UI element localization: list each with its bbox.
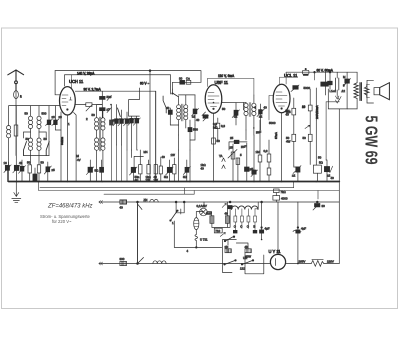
- svg-text:µµF: µµF: [256, 130, 261, 134]
- svg-text:UCH 11: UCH 11: [69, 79, 84, 84]
- wire grid top: [55, 71, 60, 95]
- trimmer C2: [52, 106, 61, 130]
- wire rail2: [65, 75, 171, 94]
- core T2: [249, 103, 251, 117]
- arrow mark: [305, 125, 310, 128]
- svg-text:40: 40: [162, 155, 166, 159]
- wire tube cathode down: [66, 115, 68, 182]
- svg-text:50: 50: [41, 161, 45, 165]
- resistor R13 striped: [120, 200, 127, 210]
- trimmer C1: [46, 106, 53, 156]
- svg-text:4µF: 4µF: [301, 227, 306, 231]
- wire left rail: [9, 106, 16, 182]
- resistor R5: [216, 118, 226, 140]
- svg-text:NSF: NSF: [206, 212, 212, 216]
- trimmer C31: [344, 72, 351, 89]
- coil L5: [336, 72, 339, 95]
- svg-text:UBF 11: UBF 11: [215, 80, 229, 85]
- capacitor C3: [28, 165, 31, 182]
- switch S9: [138, 258, 144, 264]
- output transformer primary: [354, 72, 358, 109]
- capacitor C29: [304, 86, 317, 120]
- svg-text:500: 500: [107, 95, 112, 99]
- svg-text:0,3: 0,3: [264, 149, 268, 153]
- svg-text:43: 43: [19, 161, 23, 165]
- svg-text:4: 4: [187, 249, 189, 253]
- tube UBF11 U2: [205, 85, 222, 113]
- svg-text:ZN: ZN: [144, 198, 148, 202]
- dial lamp La1: [197, 204, 208, 216]
- coil L0: [7, 126, 11, 138]
- capacitor C17: [186, 77, 191, 85]
- fuse Si: [14, 91, 19, 99]
- capacitor C10: [100, 99, 112, 118]
- volume pot P1: [228, 144, 237, 182]
- IF transformer T2 secondary: [252, 95, 256, 128]
- svg-text:±5: ±5: [52, 168, 56, 172]
- loudspeaker LS: [367, 80, 390, 103]
- svg-text:0,1A/6V: 0,1A/6V: [197, 204, 207, 208]
- trimmer C27: [293, 165, 301, 181]
- svg-text:50: 50: [27, 161, 31, 165]
- resistor R14 striped: [204, 202, 214, 227]
- capacitor C22: [245, 143, 254, 182]
- switch S4: [172, 89, 195, 97]
- trimmer C7: [44, 162, 51, 182]
- wire input top: [16, 105, 60, 107]
- svg-text:50: 50: [26, 137, 30, 141]
- wave symbol: [293, 230, 301, 233]
- wire plate right: [75, 91, 155, 181]
- switch arm S8: [240, 256, 254, 271]
- tuning gang frame: [129, 88, 140, 118]
- coil L1: [24, 106, 33, 138]
- trimmer C18: [192, 95, 199, 125]
- svg-text:140 V, 28µA: 140 V, 28µA: [77, 71, 95, 75]
- resistor R2: [110, 105, 114, 182]
- capacitor C19: [188, 120, 198, 140]
- svg-text:4µF: 4µF: [265, 227, 270, 231]
- resistor group G1: [134, 150, 150, 182]
- coil L2: [28, 132, 32, 156]
- resistor R7: [236, 158, 240, 182]
- wire lamp bottom: [212, 208, 230, 227]
- svg-text:5: 5: [343, 84, 345, 88]
- svg-text:±2: ±2: [234, 115, 238, 119]
- switch staple S6b: [175, 201, 185, 213]
- svg-text:0,3: 0,3: [221, 124, 225, 128]
- resistor R21: [273, 193, 288, 202]
- scale lamp resistor: [194, 212, 208, 248]
- wire anode vert: [71, 75, 73, 88]
- svg-text:220V: 220V: [327, 260, 334, 264]
- svg-text:40: 40: [264, 106, 268, 110]
- svg-text:.12: .12: [341, 89, 345, 93]
- svg-text:TA: TA: [219, 154, 223, 158]
- resistor R15 striped: [225, 202, 230, 227]
- tube UCL11 U3: [273, 84, 290, 112]
- IF transformer T2 primary: [244, 102, 248, 130]
- switch S2: [46, 142, 49, 156]
- svg-text:±3: ±3: [59, 115, 63, 119]
- resistor R4: [166, 106, 172, 125]
- resistor R11: [302, 89, 312, 165]
- svg-text:5Ω: 5Ω: [319, 161, 324, 165]
- svg-text:30: 30: [179, 77, 183, 81]
- svg-text:265V: 265V: [299, 260, 306, 264]
- svg-text:40: 40: [196, 118, 200, 122]
- svg-text:5 GW 69: 5 GW 69: [362, 116, 382, 165]
- wire link: [24, 156, 50, 165]
- svg-text:25: 25: [230, 136, 234, 140]
- trimmer arrow: [220, 232, 225, 236]
- svg-text:U 711: U 711: [200, 237, 208, 241]
- svg-text:±2: ±2: [259, 115, 263, 119]
- resistor R10: [286, 98, 296, 165]
- wire T2 down: [246, 128, 254, 140]
- trimmer C11: [113, 105, 120, 145]
- trimmer C13: [128, 118, 135, 150]
- capacitor C26 barrel: [303, 68, 309, 75]
- svg-text:40: 40: [331, 176, 335, 180]
- svg-text:U Y 11: U Y 11: [269, 249, 282, 254]
- svg-text:5000: 5000: [304, 86, 311, 90]
- svg-text:UCL 11: UCL 11: [284, 73, 298, 78]
- bus C: [104, 193, 194, 195]
- svg-text:110 V, 6mA: 110 V, 6mA: [218, 74, 235, 78]
- wire output bottom: [328, 89, 357, 109]
- svg-text:50: 50: [113, 119, 117, 123]
- wire osc bottoms: [170, 125, 195, 150]
- resistor R12 boxed: [313, 120, 321, 181]
- junction dots bus: [16, 102, 317, 265]
- svg-text:1W: 1W: [146, 178, 151, 182]
- choke bumps lower: [153, 261, 166, 264]
- capacitor C25: [251, 135, 258, 182]
- svg-text:7kΩ: 7kΩ: [281, 190, 287, 194]
- wire long vertical V1: [149, 71, 151, 182]
- svg-text:5: 5: [240, 153, 242, 157]
- svg-text:Cu: Cu: [186, 77, 190, 81]
- svg-text:4N: 4N: [245, 245, 249, 249]
- svg-text:300: 300: [120, 257, 125, 261]
- svg-text:710: 710: [215, 229, 220, 233]
- svg-text:4000: 4000: [281, 197, 288, 201]
- trimmer CG1: [130, 167, 138, 182]
- wire UY anode up: [277, 202, 279, 250]
- wire UBF cathode: [213, 113, 215, 181]
- mains line upper: [99, 201, 339, 203]
- capacitor C30: [328, 72, 333, 89]
- svg-text:10: 10: [302, 105, 306, 109]
- resistor 710 box: [214, 228, 222, 233]
- svg-text:für 220 V~: für 220 V~: [52, 219, 72, 224]
- trimmer C12: [118, 110, 125, 145]
- trimmer C5: [4, 162, 11, 182]
- tube UY11 U4: [269, 249, 286, 270]
- switch S3: [118, 108, 121, 117]
- svg-text:500: 500: [42, 112, 47, 116]
- wire switch internals: [228, 240, 264, 274]
- svg-text:50: 50: [217, 139, 221, 143]
- svg-text:121: 121: [240, 267, 245, 271]
- resistor group G3: [173, 158, 176, 182]
- svg-text:200V/20mA: 200V/20mA: [315, 105, 319, 119]
- trimmer C26b: [291, 85, 299, 92]
- wire UCL anode loop: [285, 72, 287, 84]
- resistor M6: [76, 103, 103, 111]
- capacitor C28: [324, 102, 339, 182]
- trimmer C15: [183, 160, 190, 182]
- wire tube left pin: [60, 112, 62, 182]
- coil L3: [37, 106, 46, 138]
- svg-text:50: 50: [44, 137, 48, 141]
- wire: [97, 104, 103, 106]
- choke bumps upper: [150, 199, 158, 202]
- resistor R3: [179, 77, 185, 85]
- svg-text:40: 40: [166, 106, 170, 110]
- core T1: [99, 117, 100, 151]
- svg-text:ZF=468/473 kHz: ZF=468/473 kHz: [47, 204, 93, 210]
- wire UCL cathode: [281, 113, 283, 182]
- svg-text:5Ω: 5Ω: [164, 175, 169, 179]
- capacitor C36: [313, 201, 325, 210]
- trimmer C35: [86, 160, 99, 182]
- resistor R20: [274, 189, 287, 194]
- capacitor C8 electrolytic: [33, 168, 37, 181]
- wire misc: [132, 150, 138, 158]
- resistor R1 boxed: [14, 106, 18, 156]
- switch S1: [24, 142, 27, 156]
- osc coil Lb: [184, 95, 188, 128]
- capacitor C32: [222, 201, 232, 209]
- wire osc top: [172, 82, 201, 89]
- pickup arrows: [219, 154, 225, 169]
- resistor R18: [120, 257, 127, 266]
- IF1 feed capacitor C9: [100, 91, 112, 100]
- IF transformer T1 primary: [95, 105, 99, 182]
- svg-text:16: 16: [4, 161, 8, 165]
- svg-text:2: 2: [86, 117, 88, 121]
- mains line lower: [99, 263, 339, 265]
- arrow pair right: [338, 97, 342, 100]
- svg-text:1W: 1W: [171, 153, 176, 157]
- osc coil La: [177, 96, 181, 135]
- svg-text:1M: 1M: [256, 150, 261, 154]
- arrows down: [336, 96, 339, 103]
- svg-text:500: 500: [193, 128, 198, 132]
- svg-text:2N: 2N: [225, 245, 229, 249]
- resistor R8: [258, 120, 262, 182]
- output transformer core: [360, 83, 361, 101]
- capacitor C33 electrolytic: [260, 201, 270, 239]
- ground: [12, 182, 21, 203]
- svg-text:M4: M4: [144, 150, 148, 154]
- coil L4: [37, 132, 41, 156]
- svg-text:±7: ±7: [107, 108, 111, 112]
- svg-text:49: 49: [225, 212, 229, 216]
- misc small labels: [4, 75, 347, 253]
- wire 60V arrow: [140, 82, 149, 86]
- svg-text:40: 40: [120, 206, 124, 210]
- svg-text:L1+2: L1+2: [330, 89, 337, 93]
- wire grid left: [269, 96, 273, 121]
- svg-text:M: M: [343, 75, 346, 79]
- svg-text:1: 1: [172, 221, 174, 225]
- trimmer C24: [257, 104, 264, 130]
- capacitor C34 electrolytic: [296, 202, 306, 264]
- wire heater return: [174, 221, 221, 248]
- wire grid line: [222, 102, 246, 110]
- svg-text:µµF: µµF: [241, 145, 246, 149]
- heater choke bumps: [232, 206, 258, 234]
- svg-text:4W: 4W: [286, 140, 291, 144]
- wire tube right pin: [74, 113, 77, 182]
- svg-text:60 V, 60mA: 60 V, 60mA: [317, 68, 334, 72]
- capacitor C4: [37, 165, 40, 182]
- svg-text:30: 30: [322, 204, 326, 208]
- svg-text:±2: ±2: [292, 174, 296, 178]
- resistor R17 striped: [245, 245, 252, 259]
- wire UBF anode top: [208, 78, 254, 95]
- vertical long left mid: [117, 145, 128, 182]
- switch arm S6: [170, 209, 181, 221]
- trimmer C6b: [19, 160, 26, 182]
- svg-text:90 V, 2,7mA: 90 V, 2,7mA: [84, 88, 102, 92]
- svg-text:5000: 5000: [269, 121, 276, 125]
- tube UCH11 U1: [60, 87, 76, 115]
- wire jogs: [185, 182, 319, 200]
- capacitor C26c blob: [321, 72, 329, 95]
- wire right of choke: [255, 202, 258, 209]
- switch S5: [163, 96, 166, 113]
- trimmer CG3: [166, 160, 174, 182]
- bus B: [40, 187, 294, 189]
- trimmer C14: [133, 118, 140, 150]
- capacitor C16: [100, 160, 104, 182]
- capacitor C21: [229, 140, 247, 150]
- svg-text:60 V: 60 V: [140, 82, 147, 86]
- svg-text:25: 25: [230, 146, 234, 150]
- svg-text:±3: ±3: [52, 115, 56, 119]
- svg-text:67mA: 67mA: [274, 132, 278, 139]
- output section top rail: [286, 71, 357, 73]
- svg-text:50: 50: [25, 112, 29, 116]
- bus B2: [39, 182, 340, 191]
- svg-text:40: 40: [201, 167, 205, 171]
- svg-text:40: 40: [286, 113, 290, 117]
- IF transformer T1 secondary: [101, 110, 105, 170]
- core osc: [181, 104, 183, 121]
- svg-text:50: 50: [222, 107, 226, 111]
- wire pot link vertical: [137, 202, 139, 264]
- switch arm S7: [224, 260, 237, 266]
- svg-text:Schirm: Schirm: [60, 137, 64, 145]
- resistor R19 zigzag: [299, 259, 334, 266]
- resistor group G2: [154, 91, 162, 181]
- svg-text:50: 50: [303, 136, 307, 140]
- switch box power: [223, 236, 237, 273]
- capacitor C20 blob: [202, 112, 209, 121]
- wire right drop: [338, 109, 340, 264]
- output transformer secondary: [364, 85, 369, 98]
- resistor R6: [212, 138, 221, 144]
- svg-text:±2: ±2: [327, 174, 331, 178]
- svg-text:1: 1: [68, 122, 70, 126]
- trimmer C6: [13, 106, 20, 182]
- trimmer C12b: [124, 112, 131, 150]
- svg-text:4V: 4V: [77, 158, 81, 162]
- svg-text:±2: ±2: [192, 115, 196, 119]
- resistor R9: [267, 140, 271, 182]
- svg-text:50: 50: [318, 156, 322, 160]
- svg-text:50: 50: [92, 113, 96, 117]
- main bus A: [9, 181, 340, 183]
- antenna A: [8, 70, 24, 91]
- junction: [137, 201, 139, 203]
- resistor R16 striped: [225, 245, 232, 253]
- trimmer C23: [232, 103, 239, 125]
- wire rail1 140V: [55, 71, 201, 83]
